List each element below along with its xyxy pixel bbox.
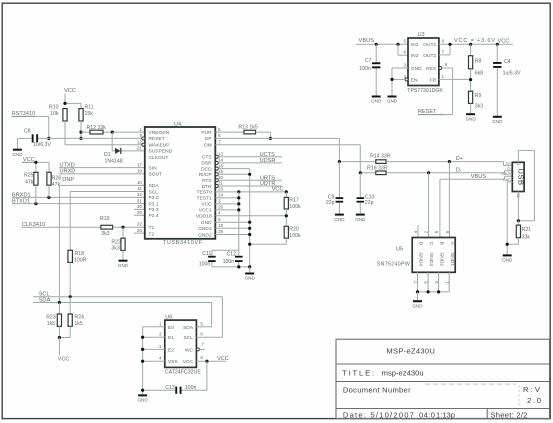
resistor R26 47k (DNP) bbox=[47, 172, 51, 185]
svg-text:msp-ez430u: msp-ez430u bbox=[382, 369, 424, 378]
svg-text:VREGEN: VREGEN bbox=[149, 130, 170, 136]
capacitor C12 100n bbox=[235, 256, 243, 258]
svg-text:R:V: R:V bbox=[523, 385, 541, 394]
wire RI/CP to ground bus bbox=[218, 173, 249, 175]
ground symbol (USB) bbox=[503, 254, 512, 256]
svg-text:18: 18 bbox=[218, 223, 224, 228]
svg-text:SDA: SDA bbox=[183, 325, 194, 331]
capacitor C10 22p bbox=[359, 173, 361, 197]
svg-text:VCC = +3.6V: VCC = +3.6V bbox=[454, 38, 495, 44]
svg-text:3: 3 bbox=[218, 199, 221, 204]
svg-text:1k5: 1k5 bbox=[74, 321, 82, 327]
junction dot VCC/R25 bbox=[34, 161, 37, 164]
svg-text:1:13p: 1:13p bbox=[436, 410, 455, 419]
U4 WAKEUP pin bubble bbox=[142, 143, 145, 146]
svg-text:GND: GND bbox=[245, 276, 256, 281]
resistor R21 33k bbox=[517, 221, 519, 225]
wire T2 stub bbox=[134, 232, 145, 234]
svg-text:U4: U4 bbox=[174, 122, 181, 128]
svg-text:UDSR: UDSR bbox=[260, 158, 276, 164]
svg-text:PUR: PUR bbox=[201, 130, 212, 136]
svg-text:21: 21 bbox=[218, 181, 224, 186]
wire OUT2 jog bbox=[439, 54, 450, 56]
svg-text:E1: E1 bbox=[168, 335, 174, 341]
wire DTR stub / net label UDTR bbox=[218, 185, 282, 187]
svg-text:OUT2: OUT2 bbox=[423, 53, 436, 59]
svg-text:SCL: SCL bbox=[149, 189, 159, 195]
svg-text:GND: GND bbox=[118, 263, 129, 268]
svg-text:6: 6 bbox=[218, 133, 221, 138]
ground symbol (U4 decoupling) bbox=[249, 267, 251, 274]
junction dot TEST0/VCC bus bbox=[237, 190, 240, 193]
svg-text:C8: C8 bbox=[24, 128, 31, 134]
svg-text:100n: 100n bbox=[199, 261, 211, 267]
svg-text:10: 10 bbox=[137, 180, 143, 185]
resistor R25 47k bbox=[34, 172, 38, 185]
wire IN2 jog bbox=[397, 44, 399, 55]
svg-text:R24: R24 bbox=[74, 315, 84, 321]
wire R13 to DP row bbox=[256, 131, 271, 133]
svg-text:15k: 15k bbox=[85, 111, 94, 117]
resistor R14 33R (D+ series) bbox=[339, 161, 375, 163]
wire C11/C12 bottoms to ground bus bbox=[212, 266, 250, 268]
junction dot R11/RESET row bbox=[79, 137, 82, 140]
ghost REV marks bbox=[518, 385, 520, 408]
svg-text:2: 2 bbox=[424, 230, 429, 233]
wire U6 VSS bbox=[143, 360, 165, 362]
svg-text:VCC: VCC bbox=[272, 186, 284, 192]
svg-text:26: 26 bbox=[218, 205, 224, 210]
svg-text:VCC: VCC bbox=[217, 356, 229, 362]
svg-text:DP: DP bbox=[205, 136, 212, 142]
wire SCL bus row bbox=[33, 296, 222, 298]
svg-text:VCC: VCC bbox=[498, 38, 510, 44]
junction dot RST/C8/RESET bbox=[47, 137, 50, 140]
svg-text:Date: 5/10/2007: Date: 5/10/2007 bbox=[343, 410, 414, 419]
svg-text:GND: GND bbox=[387, 99, 398, 104]
svg-text:VBUS: VBUS bbox=[359, 38, 375, 44]
wire USB shield loop S1 bbox=[517, 150, 519, 162]
U4 modem pin bubbles CTS DSR DCD RI RTS DTR bbox=[215, 155, 218, 158]
capacitor C13 100n bbox=[143, 389, 176, 391]
wire R20 bottom to ground bus bbox=[285, 238, 287, 244]
svg-text:C11: C11 bbox=[202, 251, 211, 257]
svg-text:TPS77301DGK: TPS77301DGK bbox=[407, 88, 443, 94]
svg-text:VSS: VSS bbox=[168, 359, 179, 365]
wire U6 VCC pin bbox=[196, 360, 226, 362]
svg-text:21: 21 bbox=[137, 146, 143, 151]
wire DSR stub / net label UDSR bbox=[218, 162, 282, 164]
svg-text:VCC: VCC bbox=[201, 202, 212, 208]
junction dot R26/BRXD1 bbox=[47, 196, 50, 199]
svg-text:30: 30 bbox=[137, 204, 143, 209]
ground symbol (U3) bbox=[388, 96, 397, 98]
svg-text:CLKOUT: CLKOUT bbox=[149, 155, 169, 161]
svg-text:24: 24 bbox=[218, 193, 224, 198]
USB connector BS1 box bbox=[512, 162, 524, 191]
svg-text:GND: GND bbox=[412, 303, 423, 308]
junction dot D-/U5 pin C bbox=[427, 171, 430, 174]
wire C8 to GND bbox=[17, 137, 31, 139]
svg-text:VCC: VCC bbox=[183, 359, 194, 365]
wire VREGEN row with R12 bbox=[81, 131, 90, 133]
svg-text:WC: WC bbox=[185, 347, 194, 353]
wire D+ jog into USB bbox=[503, 162, 505, 166]
junction dot R12/D1 bbox=[111, 131, 114, 134]
svg-text:P3.1: P3.1 bbox=[149, 201, 159, 207]
svg-text:5: 5 bbox=[200, 321, 203, 326]
wire R21 to USB GND net bbox=[517, 238, 519, 245]
junction dot VBUS/C7 bbox=[375, 43, 378, 46]
svg-text:GND: GND bbox=[503, 178, 511, 182]
wire VCC rail to R10/R11 tops bbox=[65, 102, 81, 104]
svg-text:3k3: 3k3 bbox=[101, 231, 109, 237]
wire U6 SDA pin 5 up to SDA bus bbox=[196, 326, 211, 328]
svg-text:FB: FB bbox=[430, 77, 436, 83]
svg-text:1: 1 bbox=[442, 74, 445, 79]
ground symbol (R22) bbox=[119, 260, 128, 262]
svg-text:32: 32 bbox=[137, 192, 143, 197]
wire P3.3 stub bbox=[134, 208, 145, 210]
svg-text:28: 28 bbox=[137, 210, 143, 215]
junction dot FB/R8/R9 bbox=[470, 69, 472, 91]
ground symbol (C8) bbox=[13, 149, 22, 151]
svg-text:D+: D+ bbox=[456, 156, 463, 162]
resistor R17 100k bbox=[285, 192, 287, 198]
svg-text:D-: D- bbox=[456, 167, 462, 173]
wire USB GND pin down bbox=[507, 181, 512, 183]
svg-text:RI/CP: RI/CP bbox=[199, 172, 212, 178]
svg-text:R10: R10 bbox=[49, 104, 59, 110]
svg-text:DTR: DTR bbox=[202, 184, 213, 190]
svg-text:GND: GND bbox=[502, 258, 513, 263]
svg-text:SN75240PW: SN75240PW bbox=[377, 262, 410, 268]
svg-text:SOUT: SOUT bbox=[149, 172, 163, 178]
svg-text:USB: USB bbox=[517, 168, 526, 185]
svg-text:GND2: GND2 bbox=[198, 232, 212, 238]
svg-text:29: 29 bbox=[218, 229, 224, 234]
svg-text:5: 5 bbox=[445, 62, 448, 67]
wire R22 to GND bbox=[122, 250, 124, 260]
svg-text:C13: C13 bbox=[165, 385, 175, 391]
junction dot PUR/DP bbox=[269, 137, 272, 140]
svg-text:17: 17 bbox=[137, 162, 143, 167]
resistor R22 3k3 bbox=[122, 227, 124, 238]
svg-text:TEST1: TEST1 bbox=[196, 196, 211, 202]
svg-text:2: 2 bbox=[159, 332, 162, 337]
wire U6 E0 bbox=[143, 326, 165, 328]
svg-text:GND4: GND4 bbox=[418, 253, 424, 267]
svg-text:33k: 33k bbox=[522, 234, 531, 240]
svg-text:DNP: DNP bbox=[62, 177, 74, 183]
wire BRXD1 row bbox=[12, 196, 145, 198]
svg-text:GND3: GND3 bbox=[428, 253, 434, 267]
svg-text:8: 8 bbox=[200, 355, 203, 360]
wire TEST1 to bus bbox=[215, 197, 239, 199]
svg-text:VBUS: VBUS bbox=[471, 174, 487, 180]
wire R9 to GND bbox=[470, 103, 472, 114]
op-amp U3 TPS77301DGK box bbox=[408, 38, 439, 86]
resistor R18 100R (series in SCL) bbox=[68, 250, 73, 262]
svg-text:100R: 100R bbox=[74, 258, 87, 264]
capacitor C4 1u/6.3V bbox=[496, 44, 498, 62]
svg-text:C12: C12 bbox=[227, 251, 237, 257]
resistor R24 1k5 bbox=[69, 297, 71, 314]
svg-text:10k: 10k bbox=[50, 111, 59, 117]
svg-text:C4: C4 bbox=[504, 59, 511, 65]
svg-text:C7: C7 bbox=[365, 58, 372, 64]
svg-text:6: 6 bbox=[200, 332, 203, 337]
U4 RESET pin bubble bbox=[142, 137, 145, 140]
resistor R8 6k8 bbox=[470, 44, 472, 55]
resistor R9 3k3 bbox=[469, 91, 473, 103]
wire VCC to R25/R26 tops bbox=[36, 161, 49, 163]
resistor R12 33k bbox=[90, 130, 103, 134]
resistor R11 15k bbox=[79, 109, 83, 121]
svg-text:T1: T1 bbox=[149, 225, 155, 231]
svg-text:1k5: 1k5 bbox=[47, 321, 55, 327]
wire TEST0 row to R17 / net label VCC bbox=[215, 191, 286, 193]
wire R10 bottom to WAKEUP pin (net RST path) bbox=[64, 121, 66, 145]
svg-text:5: 5 bbox=[403, 39, 406, 44]
wire RES to RESET label bbox=[442, 67, 453, 69]
svg-text:S1: S1 bbox=[516, 161, 520, 165]
wire GND pin to ground bus bbox=[215, 221, 249, 223]
svg-text:31: 31 bbox=[137, 198, 143, 203]
svg-text:OUT1: OUT1 bbox=[423, 42, 436, 48]
op-amp U4 TUSB3410VF box bbox=[145, 127, 216, 239]
svg-text:GND: GND bbox=[334, 217, 345, 222]
svg-text:R21: R21 bbox=[522, 227, 532, 233]
svg-text:100k: 100k bbox=[289, 204, 301, 210]
svg-text:4: 4 bbox=[218, 211, 221, 216]
U3 EN bubble bbox=[405, 78, 408, 81]
svg-text:1N4148: 1N4148 bbox=[105, 158, 123, 164]
svg-text:VCC: VCC bbox=[64, 88, 76, 94]
svg-text:TUSB3410VF: TUSB3410VF bbox=[163, 240, 202, 246]
ground symbol (U5) bbox=[413, 300, 422, 302]
svg-text:D+: D+ bbox=[506, 161, 511, 165]
svg-text:1: 1 bbox=[159, 321, 162, 326]
svg-text:WAKEUP: WAKEUP bbox=[149, 143, 170, 149]
svg-text:CTS: CTS bbox=[202, 155, 213, 161]
wire CLK3410 to R19 bbox=[22, 226, 101, 228]
wire CTS stub / net label UCTS bbox=[218, 156, 282, 158]
svg-text:R13 1k5: R13 1k5 bbox=[238, 125, 257, 131]
wire BTXD1 row bbox=[12, 203, 145, 205]
svg-text:VCC1: VCC1 bbox=[199, 208, 212, 214]
junction dot R19/R22/T1 bbox=[121, 226, 124, 229]
svg-text:14: 14 bbox=[218, 158, 224, 163]
svg-text:R12 33k: R12 33k bbox=[87, 125, 107, 131]
svg-text:UCTS: UCTS bbox=[260, 152, 275, 158]
svg-text:100k: 100k bbox=[289, 233, 301, 239]
wire PUR to R13 bbox=[215, 131, 244, 133]
svg-text:U6: U6 bbox=[165, 315, 172, 321]
svg-text:3k3: 3k3 bbox=[111, 246, 119, 252]
svg-text:GND2: GND2 bbox=[439, 253, 445, 267]
wire VCC 3.6V output rail bbox=[439, 43, 513, 45]
svg-text:U5: U5 bbox=[396, 247, 403, 253]
svg-text:R26: R26 bbox=[52, 176, 62, 182]
svg-text:Document Number: Document Number bbox=[343, 386, 411, 395]
svg-text:4: 4 bbox=[159, 356, 162, 361]
U3 RES bubble bbox=[439, 67, 442, 70]
svg-text:P3.3: P3.3 bbox=[149, 207, 159, 213]
U6 WC pin bubble stub bbox=[196, 348, 199, 351]
svg-text:47k: 47k bbox=[25, 179, 34, 185]
svg-text:9: 9 bbox=[218, 217, 221, 222]
svg-text:23: 23 bbox=[218, 187, 224, 192]
resistor R23 1k5 bbox=[58, 303, 60, 315]
wire FB to divider node bbox=[439, 78, 471, 80]
svg-text:13: 13 bbox=[218, 152, 224, 157]
svg-text:7: 7 bbox=[218, 139, 221, 144]
junction dot USB gnd/R21 bbox=[506, 243, 509, 246]
junction dot EN/GND bbox=[390, 78, 393, 81]
svg-text:R25: R25 bbox=[24, 173, 34, 179]
svg-text:GND: GND bbox=[201, 220, 212, 226]
svg-text:RTS: RTS bbox=[202, 178, 212, 184]
svg-text:6k8: 6k8 bbox=[475, 70, 483, 76]
wire U5 gnd drop bbox=[417, 292, 419, 301]
svg-text:TEST0: TEST0 bbox=[196, 190, 211, 196]
junction dot rail/R8 bbox=[469, 43, 472, 46]
svg-text:1u/6.3V: 1u/6.3V bbox=[503, 71, 521, 77]
svg-text:1: 1 bbox=[139, 127, 142, 132]
resistor R20 100k bbox=[284, 226, 288, 238]
wire U6 E2 bbox=[143, 348, 165, 350]
junction dot R11/VREGEN row bbox=[79, 131, 82, 134]
svg-text:1u/6.3V: 1u/6.3V bbox=[33, 142, 51, 148]
svg-text:4: 4 bbox=[413, 230, 418, 233]
svg-text:GND: GND bbox=[411, 66, 422, 72]
wire R11 bottom to VREGEN/RESET rows bbox=[80, 121, 82, 132]
svg-text:GND: GND bbox=[355, 217, 366, 222]
wire U5 pin C drop bbox=[428, 173, 430, 238]
svg-text:GND: GND bbox=[492, 119, 503, 124]
wire U5 pin D stub (nc) bbox=[417, 225, 419, 238]
svg-text:16: 16 bbox=[218, 163, 224, 168]
svg-text:GND: GND bbox=[465, 116, 476, 121]
svg-text:P3.4: P3.4 bbox=[149, 213, 159, 219]
svg-text:R17: R17 bbox=[289, 198, 299, 204]
svg-text:DM: DM bbox=[204, 143, 212, 149]
svg-text:IN2: IN2 bbox=[411, 53, 419, 59]
svg-text:VCC: VCC bbox=[58, 357, 70, 363]
junction dot R17/R20/VDD18 bbox=[285, 209, 287, 226]
wire RESET row to U4 pin 9 bbox=[38, 137, 142, 139]
wire GND2 pin to ground bus bbox=[215, 234, 249, 236]
ground symbol (U6) bbox=[138, 394, 147, 396]
capacitor C11 100n bbox=[212, 249, 239, 251]
svg-text:11: 11 bbox=[137, 186, 142, 191]
wire VDD18 row to R17/R20 node bbox=[215, 215, 286, 217]
wire R19 to U4 T1 bbox=[113, 226, 145, 228]
op-amp U6 CAT24FC32 EEPROM box bbox=[165, 320, 197, 367]
svg-text:P3.0: P3.0 bbox=[149, 195, 159, 201]
wire VCC1 pin to bus bbox=[215, 209, 239, 211]
wire U6 E1 bbox=[143, 336, 165, 338]
wire DM row to D- drop bbox=[215, 144, 360, 146]
junction dot RI/CP bbox=[248, 173, 251, 176]
svg-text:DSR: DSR bbox=[201, 161, 212, 167]
svg-text:GND: GND bbox=[12, 152, 23, 157]
svg-text:Sheet: 2/2: Sheet: 2/2 bbox=[490, 410, 527, 419]
wire GND1 pin to ground bus bbox=[215, 227, 249, 229]
wire U3 GND pin to GND bbox=[392, 67, 408, 69]
svg-text:12: 12 bbox=[137, 139, 143, 144]
svg-text:RESET: RESET bbox=[149, 136, 165, 142]
svg-text:R19: R19 bbox=[100, 216, 110, 222]
svg-text:8: 8 bbox=[442, 39, 445, 44]
junction dot D+/U5 pin A bbox=[448, 160, 451, 163]
junction dot SDA branch bbox=[58, 301, 61, 304]
svg-text:3: 3 bbox=[159, 344, 162, 349]
junction dot VBUS/IN2 bbox=[396, 43, 399, 46]
svg-text:6: 6 bbox=[403, 50, 406, 55]
svg-text:R8: R8 bbox=[475, 58, 482, 64]
junction dot R17 top bbox=[285, 190, 288, 193]
svg-text:SUSPEND: SUSPEND bbox=[149, 149, 173, 155]
svg-text:RES: RES bbox=[426, 66, 437, 72]
wire SDA bus row bbox=[33, 302, 212, 304]
svg-text:VBUS: VBUS bbox=[501, 172, 511, 176]
svg-text:8: 8 bbox=[445, 230, 450, 233]
resistor R16 33R (D- series) bbox=[360, 172, 376, 174]
junction dot shield/R21 bbox=[517, 219, 520, 222]
capacitor C9 22p bbox=[338, 162, 340, 198]
svg-text:D1: D1 bbox=[104, 152, 111, 158]
svg-text:CAT24FC32UE: CAT24FC32UE bbox=[165, 370, 202, 376]
svg-text:R14 33R: R14 33R bbox=[370, 154, 391, 160]
svg-text:VDD18: VDD18 bbox=[196, 214, 212, 220]
ground symbol (C7) bbox=[372, 96, 381, 98]
resistor R10 10k bbox=[63, 109, 67, 121]
svg-text:2.0: 2.0 bbox=[527, 396, 541, 405]
svg-text:R20: R20 bbox=[289, 227, 299, 233]
diode D1 1N4148 (to SUSPEND) bbox=[111, 132, 113, 151]
svg-text:DCD: DCD bbox=[201, 166, 212, 172]
capacitor C7 100n bbox=[375, 44, 377, 62]
svg-text:100n: 100n bbox=[359, 66, 371, 72]
svg-text:26: 26 bbox=[137, 228, 143, 233]
wire U6 SCL pin 4 up to SCL bus bbox=[196, 336, 222, 338]
svg-text:EN: EN bbox=[411, 77, 418, 83]
svg-text:IN1: IN1 bbox=[411, 42, 419, 48]
svg-text:100n: 100n bbox=[223, 259, 235, 265]
svg-text:R11: R11 bbox=[85, 104, 94, 110]
junction dot rail/C4 bbox=[496, 43, 499, 46]
wire DCD to ground bus bbox=[218, 168, 249, 170]
resistor R19 3k3 bbox=[101, 225, 113, 229]
svg-text:R18: R18 bbox=[75, 251, 85, 257]
svg-text:SIN: SIN bbox=[149, 165, 158, 171]
svg-text:E2: E2 bbox=[168, 347, 174, 353]
wire U5 bottom pins to gnd rail bbox=[417, 272, 419, 292]
svg-text:22: 22 bbox=[137, 222, 143, 227]
svg-text:04:0: 04:0 bbox=[419, 410, 435, 419]
wire EN to GND net bbox=[392, 78, 405, 80]
ground symbol (C4) bbox=[493, 116, 502, 118]
svg-text:GND: GND bbox=[137, 398, 148, 403]
wire RST3410 to RESET row bbox=[35, 115, 49, 117]
junction dot SCL/R18 branch bbox=[69, 295, 72, 298]
svg-text:R16 33R: R16 33R bbox=[367, 166, 388, 172]
ground symbol (R9) bbox=[466, 113, 475, 115]
svg-text:6: 6 bbox=[434, 230, 439, 233]
svg-text:B: B bbox=[439, 242, 445, 245]
